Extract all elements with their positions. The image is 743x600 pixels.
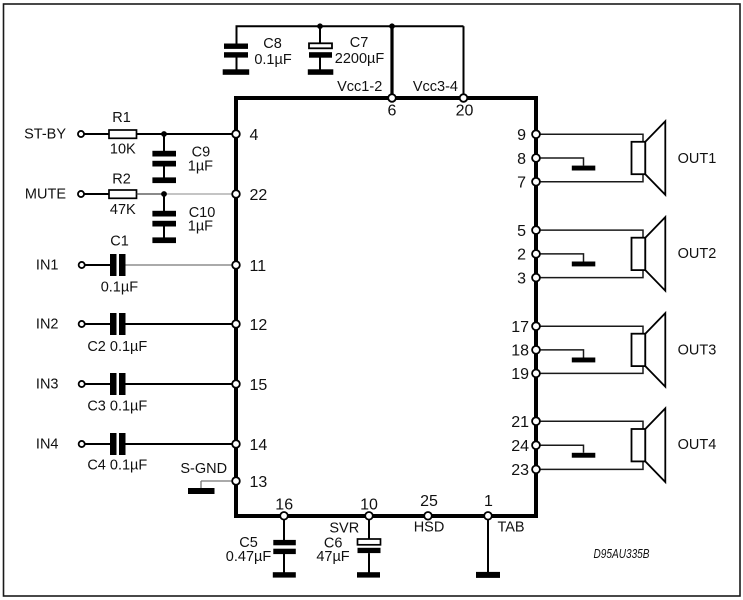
svg-text:IN4: IN4: [36, 437, 59, 453]
svg-text:6: 6: [388, 103, 397, 120]
svg-text:18: 18: [511, 343, 529, 360]
svg-text:C3 0.1µF: C3 0.1µF: [87, 399, 147, 415]
svg-text:4: 4: [250, 127, 259, 144]
svg-text:C1: C1: [110, 233, 129, 249]
svg-text:23: 23: [511, 462, 529, 479]
svg-text:1: 1: [484, 493, 493, 510]
svg-text:10K: 10K: [110, 142, 136, 158]
svg-text:SVR: SVR: [329, 520, 359, 536]
svg-text:21: 21: [511, 414, 529, 431]
svg-text:47µF: 47µF: [316, 549, 349, 565]
svg-text:OUT3: OUT3: [678, 343, 717, 359]
svg-text:S-GND: S-GND: [180, 461, 227, 477]
svg-text:8: 8: [517, 151, 526, 168]
svg-text:MUTE: MUTE: [25, 187, 66, 203]
svg-text:OUT2: OUT2: [678, 246, 717, 262]
svg-text:16: 16: [275, 497, 293, 514]
svg-text:17: 17: [511, 319, 529, 336]
svg-text:22: 22: [250, 187, 268, 204]
svg-text:Vcc1-2: Vcc1-2: [337, 79, 382, 95]
svg-text:5: 5: [517, 223, 526, 240]
svg-text:11: 11: [250, 258, 267, 275]
svg-text:15: 15: [250, 377, 268, 394]
svg-text:HSD: HSD: [414, 520, 445, 536]
svg-text:R2: R2: [112, 172, 131, 188]
svg-text:IN1: IN1: [36, 258, 59, 274]
svg-text:3: 3: [517, 270, 526, 287]
svg-text:OUT4: OUT4: [678, 437, 717, 453]
svg-text:OUT1: OUT1: [678, 151, 717, 167]
svg-text:9: 9: [517, 127, 526, 144]
svg-text:20: 20: [456, 103, 474, 120]
svg-text:1µF: 1µF: [188, 158, 213, 174]
svg-text:10: 10: [360, 497, 378, 514]
svg-text:IN2: IN2: [36, 317, 59, 333]
svg-text:IN3: IN3: [36, 377, 59, 393]
svg-text:47K: 47K: [110, 202, 136, 218]
svg-text:12: 12: [250, 317, 268, 334]
svg-text:ST-BY: ST-BY: [24, 127, 66, 143]
svg-text:24: 24: [511, 438, 529, 455]
svg-text:14: 14: [250, 437, 268, 454]
svg-text:1µF: 1µF: [188, 219, 213, 235]
svg-text:13: 13: [250, 474, 268, 491]
svg-text:0.47µF: 0.47µF: [226, 549, 272, 565]
svg-text:7: 7: [517, 175, 526, 192]
svg-text:25: 25: [420, 493, 438, 510]
svg-text:D95AU335B: D95AU335B: [594, 547, 650, 561]
svg-text:C4 0.1µF: C4 0.1µF: [87, 458, 147, 474]
svg-text:R1: R1: [112, 110, 131, 126]
svg-text:C7: C7: [350, 35, 369, 51]
svg-text:0.1µF: 0.1µF: [254, 52, 292, 68]
svg-text:C8: C8: [263, 36, 282, 52]
svg-text:19: 19: [511, 366, 529, 383]
svg-text:0.1µF: 0.1µF: [101, 280, 139, 296]
svg-text:2: 2: [517, 247, 526, 264]
svg-text:2200µF: 2200µF: [335, 51, 385, 67]
svg-text:C2 0.1µF: C2 0.1µF: [87, 339, 147, 355]
svg-text:TAB: TAB: [497, 520, 524, 536]
svg-text:Vcc3-4: Vcc3-4: [413, 79, 458, 95]
